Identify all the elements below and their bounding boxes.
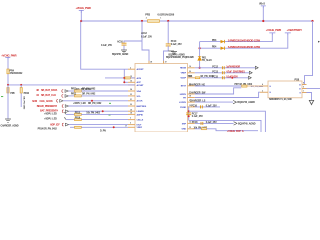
wire W1 long divider net <box>8 84 135 86</box>
row PC16 <box>191 104 220 108</box>
wire row ACN from x=105 <box>105 77 124 79</box>
svg-text:REGN: REGN <box>180 68 186 70</box>
svg-text:12: 12 <box>189 122 191 124</box>
resistor inline row 77.9 <box>125 77 130 79</box>
svg-text:+VBATTERY: +VBATTERY <box>287 28 303 32</box>
wire vertical through PD1 <box>199 42 201 68</box>
IC U1 top pin stubs <box>149 61 164 64</box>
FET Q4 left pin stubs <box>260 86 268 92</box>
wire FET source down to arrow <box>307 93 312 101</box>
svg-text:19: 19 <box>130 109 132 111</box>
svg-text:20: 20 <box>130 104 132 106</box>
ground BQ24740_AGND under AC10 <box>112 50 129 56</box>
svg-text:16: 16 <box>130 80 132 82</box>
node junction at 199.6,48.2 <box>199 47 201 49</box>
svg-text:PC12: PC12 <box>212 65 218 68</box>
IC U1 right pin names <box>179 68 187 131</box>
wire top bus horizontal <box>81 20 312 22</box>
svg-text:BATPRES: BATPRES <box>137 105 147 108</box>
svg-text:SRP: SRP <box>182 123 187 125</box>
svg-text:G: G <box>269 92 271 94</box>
svg-text:13: 13 <box>189 127 191 129</box>
svg-text:PR10: PR10 <box>24 93 30 95</box>
svg-text:BQ24740_AGND: BQ24740_AGND <box>169 53 186 56</box>
row VDDP right with resistor PR8 and cap PC15 <box>188 75 252 79</box>
svg-text:SI4800BDY-T1_E3_SO8: SI4800BDY-T1_E3_SO8 <box>269 98 292 101</box>
svg-text:+VDPU_LED: +VDPU_LED <box>73 103 86 105</box>
row CHARGER_HG <box>189 83 268 88</box>
svg-text:16: 16 <box>189 66 191 68</box>
node junction at 81,21 <box>80 20 82 22</box>
svg-text:SB_BAT_CLK: SB_BAT_CLK <box>41 94 56 97</box>
wire FET right pin middle off page <box>307 88 320 90</box>
svg-text:+VCHG_PWR: +VCHG_PWR <box>76 6 91 10</box>
svg-text:BQ24740RHDR_PVQFN-N28: BQ24740RHDR_PVQFN-N28 <box>166 56 194 59</box>
svg-text:TD_SL23: TD_SL23 <box>202 59 212 62</box>
svg-text:PC16: PC16 <box>191 104 197 107</box>
row CHARGER_SW with jog <box>189 88 241 95</box>
svg-text:BQ24740_AGND: BQ24740_AGND <box>112 53 129 56</box>
svg-text:10k_PN_0402: 10k_PN_0402 <box>22 96 25 110</box>
row BATT_PRESENT red connector at 111.2 <box>40 110 128 116</box>
row CHG_ACOK <box>32 99 128 105</box>
svg-text:5: 5 <box>130 123 131 125</box>
svg-text:PR16: PR16 <box>75 118 81 120</box>
svg-text:2: 2 <box>130 67 131 69</box>
IC U1 BQ24740 box <box>135 56 194 132</box>
svg-text:21: 21 <box>130 99 132 101</box>
node junction PD1 to REGN row <box>199 67 201 69</box>
wire branch into IC top pin 2 <box>164 51 169 64</box>
svg-text:VB+S: VB+S <box>259 3 265 6</box>
svg-text:0.1uF_25V: 0.1uF_25V <box>192 115 203 118</box>
wire from node 142 down and into IC pin <box>142 21 149 64</box>
text label RC12 cap near node <box>141 32 152 38</box>
svg-text:BKLIR_PRESENT#: BKLIR_PRESENT# <box>37 105 58 108</box>
IC U1 right pin stubs <box>188 68 195 129</box>
svg-text:2: 2 <box>146 18 147 20</box>
svg-text:8: 8 <box>303 83 304 85</box>
node junction at 124.3,82.3 <box>123 81 125 83</box>
row PC18 with AGND ref <box>192 121 256 125</box>
svg-text:BQ24740_AGND: BQ24740_AGND <box>237 101 255 104</box>
wire branch to cap AC10 <box>124 41 142 43</box>
IC U1 right pin numbers <box>189 66 191 129</box>
wire branch right to bottom right corner 1 <box>189 111 266 132</box>
svg-text:S-PMEG2010AEH/SOD-123W: S-PMEG2010AEH/SOD-123W <box>228 38 261 42</box>
svg-text:0.1uF_25V: 0.1uF_25V <box>171 43 182 46</box>
capacitor AC10 <box>101 40 127 49</box>
svg-text:0.01R/1%/1206: 0.01R/1%/1206 <box>158 13 175 17</box>
IC U1 left pin names <box>137 68 147 129</box>
wire from VBATT power to top bus <box>262 7 264 21</box>
svg-text:4: 4 <box>262 83 263 86</box>
wire into pin row 82.3 <box>124 81 128 83</box>
node junction at 168,21 <box>167 20 169 22</box>
svg-text:DR_PN_0402: DR_PN_0402 <box>82 88 96 91</box>
row bottom resistor PR14 <box>38 126 128 132</box>
svg-text:LEARN: LEARN <box>137 110 145 113</box>
node corner top-right <box>311 20 313 22</box>
svg-text:4.7uF_25V/GRM21: 4.7uF_25V/GRM21 <box>226 71 245 74</box>
FET Q4 right pin stubs <box>302 85 307 93</box>
svg-text:0.1uF_25V: 0.1uF_25V <box>101 44 112 47</box>
resistor PR5 lower divider <box>7 88 9 94</box>
svg-text:27: 27 <box>165 62 167 64</box>
svg-text:CELLS: CELLS <box>137 120 144 122</box>
svg-text:34: 34 <box>130 88 132 91</box>
row SB_BAT_CLK <box>36 92 128 97</box>
svg-text:PD3: PD3 <box>212 39 217 42</box>
svg-text:VREF: VREF <box>181 73 187 75</box>
svg-text:0.1uF_25V: 0.1uF_25V <box>141 35 152 38</box>
wire net A to +VCHG_PWR right <box>200 34 273 42</box>
svg-text:1: 1 <box>303 91 304 93</box>
svg-text:1: 1 <box>160 18 161 20</box>
svg-text:CHG_ACOK: CHG_ACOK <box>40 100 53 103</box>
svg-text:+VCHG_BAT_A: +VCHG_BAT_A <box>227 130 244 132</box>
svg-text:PR8: PR8 <box>188 75 193 78</box>
capacitor PC10 <box>166 40 182 51</box>
svg-text:SB_BAT_DATA: SB_BAT_DATA <box>41 89 57 92</box>
svg-text:PR14 DR_PN_0402: PR14 DR_PN_0402 <box>38 127 58 130</box>
svg-text:+VDPU_LED: +VDPU_LED <box>44 119 57 121</box>
row +VDPU_LED pullup 2 at 119.6 <box>44 117 128 120</box>
svg-text:hCM: hCM <box>32 100 37 103</box>
svg-text:BQ24740_AGND: BQ24740_AGND <box>238 122 256 125</box>
capacitor PC17 <box>186 112 203 118</box>
wire net B to +VBATTERY right <box>200 34 288 48</box>
ground CHARGER_AGND <box>1 119 19 128</box>
svg-text:VDDP: VDDP <box>180 78 186 80</box>
row BKLIR_PRESENT# <box>37 103 128 108</box>
svg-text:CHARGER_AGND: CHARGER_AGND <box>1 125 19 128</box>
IC U1 left pin stubs <box>128 69 135 127</box>
power symbol +VCHG_PWR top-left <box>76 6 91 13</box>
row REGN right with cap PC12 <box>195 65 258 69</box>
svg-text:S-PMEG2010AEH/SOD-123W: S-PMEG2010AEH/SOD-123W <box>228 45 261 49</box>
svg-text:33: 33 <box>130 94 132 96</box>
power symbol VBATT top-right <box>259 3 266 8</box>
svg-text:PD4: PD4 <box>212 46 217 49</box>
IC U1 left pin numbers <box>125 67 132 127</box>
row CHARGER_LS to AGND ref <box>190 100 255 105</box>
svg-text:0.1uF_25V: 0.1uF_25V <box>206 121 217 124</box>
row ADP_ID <box>50 123 128 126</box>
power symbol +VCHG_PWR left divider <box>1 53 16 59</box>
node junction at 188.7,116.3 <box>188 115 190 117</box>
svg-text:VREF: VREF <box>137 127 143 129</box>
svg-text:2: 2 <box>262 90 263 92</box>
svg-text:BTST: BTST <box>181 86 187 88</box>
wire vertical from power through top bus down to ACDET row <box>81 11 128 69</box>
wire right edge vertical down <box>305 21 313 85</box>
svg-text:PC18: PC18 <box>192 121 198 124</box>
svg-text:PR3: PR3 <box>145 13 150 17</box>
wire branch right to bottom right corner 2 <box>189 120 261 132</box>
row CHARGER_LG to FET gate pin2 <box>195 92 260 97</box>
node junction at 263,21 <box>262 20 264 22</box>
svg-text:PC13: PC13 <box>212 70 218 73</box>
svg-text:28: 28 <box>150 62 152 64</box>
svg-text:3: 3 <box>130 118 131 120</box>
svg-text:ACSET: ACSET <box>137 84 145 87</box>
node junction at 142,21 <box>141 20 143 22</box>
resistor PR10 vertical <box>20 85 30 110</box>
wire vertical branch x=124.3 <box>123 69 125 82</box>
svg-text:PGND: PGND <box>180 107 186 109</box>
FET Q4 box <box>268 78 302 101</box>
diode PD1 vertical <box>198 56 212 61</box>
svg-text:GND: GND <box>181 129 186 131</box>
wire from node 168 down to cap PC10 <box>167 21 169 44</box>
power symbol +VCHG_PWR right <box>266 28 281 35</box>
svg-text:ACOK: ACOK <box>137 100 144 103</box>
svg-text:HIDRV: HIDRV <box>180 94 187 96</box>
svg-text:6: 6 <box>303 87 304 89</box>
svg-text:ADP_ID7: ADP_ID7 <box>50 123 60 126</box>
svg-text:18: 18 <box>130 113 132 115</box>
wire hanging chain from PC16 row <box>188 107 190 121</box>
svg-text:G: G <box>269 86 271 88</box>
svg-text:ACP: ACP <box>137 81 142 84</box>
svg-text:DR_PN_0402: DR_PN_0402 <box>88 102 102 105</box>
row VREF right with cap PC13 <box>195 70 252 74</box>
svg-text:18: 18 <box>189 96 191 98</box>
diode PD4 on net B <box>212 45 261 50</box>
power arrow down <box>309 100 313 104</box>
svg-text:BAT_PRESENT#: BAT_PRESENT# <box>40 110 59 113</box>
svg-text:SDA: SDA <box>137 90 142 93</box>
svg-text:ADPID: ADPID <box>137 113 144 116</box>
node junction at 188.7,111.2 <box>188 110 190 112</box>
FET Q4 right pin names <box>299 84 301 94</box>
resistor PR4 <box>7 58 23 85</box>
power symbol +VBATTERY right <box>285 28 302 35</box>
resistor PR3 inline shunt <box>145 13 175 23</box>
row +VDPU_LED pullup 1 at 114.4 <box>44 112 128 115</box>
row SB_BAT_DATA <box>36 88 128 93</box>
ground BQ24740_AGND under PC10 <box>168 51 185 56</box>
svg-text:ACDET: ACDET <box>137 68 145 71</box>
off-page arrow right edge <box>318 41 320 43</box>
diode PD3 on net A <box>212 38 261 43</box>
svg-text:0.1uF_25V: 0.1uF_25V <box>206 104 217 107</box>
svg-text:LODRV: LODRV <box>179 102 187 104</box>
svg-text:PC15: PC15 <box>212 75 218 78</box>
node junction at 8,84.9 <box>7 84 9 86</box>
svg-text:DR_PN_0402: DR_PN_0402 <box>82 92 96 95</box>
svg-text:+VCHG_PWR: +VCHG_PWR <box>266 28 281 32</box>
wire from node 8 down to ground <box>7 85 9 119</box>
node junction at 21.2,84.9 <box>20 84 22 86</box>
svg-text:D_PN: D_PN <box>100 131 106 132</box>
node junction at 124.3,77.9 <box>123 77 125 79</box>
svg-text:26: 26 <box>189 71 191 73</box>
svg-text:PR15: PR15 <box>75 112 81 114</box>
svg-text:+VDPU_LED: +VDPU_LED <box>44 113 57 115</box>
svg-text:IOUT: IOUT <box>137 125 143 127</box>
svg-text:ACN: ACN <box>137 77 142 80</box>
row bottom with resistor to +VCHG_BAT_A <box>194 126 259 133</box>
svg-text:+VCHG_PWR: +VCHG_PWR <box>1 53 16 57</box>
svg-text:47k/F/N0402: 47k/F/N0402 <box>10 72 23 75</box>
svg-text:1uF/0402/X5R: 1uF/0402/X5R <box>226 66 240 69</box>
